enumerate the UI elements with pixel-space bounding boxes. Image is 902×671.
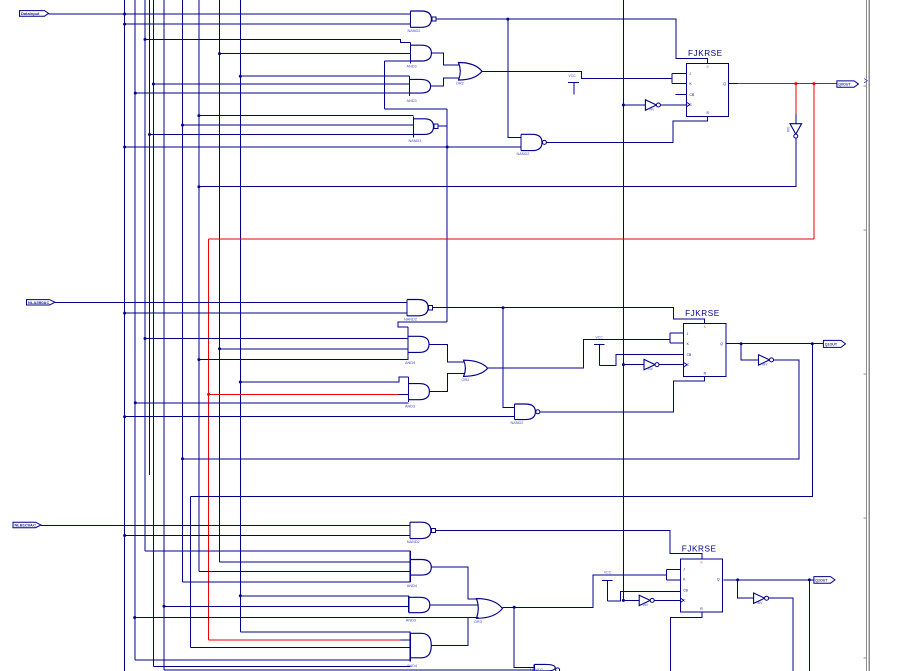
junction clock V y=600.4 bbox=[622, 599, 625, 602]
wire dropper x=514.2 to NAND C5 in1 bbox=[514, 607, 534, 667]
wire O2 output to FF U2 J/K bbox=[488, 340, 670, 369]
sheet border (double gray line, right edge) bbox=[864, 0, 870, 671]
wire U3 Q output bbox=[724, 579, 814, 581]
wire O1 output to FF U1 J/K bbox=[482, 71, 672, 78]
junction port wire x=124.6 bbox=[123, 13, 126, 16]
wire VCC row3 to U3 CB bbox=[607, 591, 680, 601]
wire navy into inverter N2 bbox=[795, 114, 797, 124]
svg-text:INV: INV bbox=[648, 367, 654, 371]
wire bus V9 x=198.9 bbox=[198, 0, 200, 572]
svg-text:Q1OUT: Q1OUT bbox=[825, 342, 838, 346]
svg-text:INV: INV bbox=[649, 108, 655, 112]
output port Q0 row1 bbox=[837, 81, 859, 87]
nand gate C5 row3 (NAND2, cut off) bbox=[530, 664, 555, 671]
wire branch y=39.4 from V3 step to 42.5 bbox=[145, 39, 410, 42]
off-sheet tick row1 bbox=[864, 79, 868, 83]
junction Q3 x=809.4 bbox=[808, 578, 811, 581]
or gate O2 row2 (OR2) bbox=[462, 360, 488, 382]
wire branch y=24.1 from V1 bbox=[125, 23, 411, 25]
svg-text:DataInput: DataInput bbox=[21, 11, 40, 16]
nand gate C1 row3 (NAND2) bbox=[407, 522, 431, 544]
junction V2 y=617.5 bbox=[133, 616, 136, 619]
junction V4 y=134.5 bbox=[148, 133, 151, 136]
wire U3 R path bbox=[671, 613, 702, 671]
wire branch y=631.8 from V12 bbox=[240, 631, 410, 633]
junction V11 y=53.6 bbox=[218, 52, 221, 55]
and gate A2 row1 (AND3) bbox=[407, 43, 432, 69]
wire C2 output to OR O3 in1 bbox=[431, 567, 477, 599]
svg-text:AND3: AND3 bbox=[405, 404, 415, 408]
wire B2 output to OR O2 in1 bbox=[429, 344, 465, 362]
svg-text:AND3: AND3 bbox=[406, 619, 416, 623]
svg-text:VCC: VCC bbox=[604, 571, 612, 575]
wire N5 out to U3 C pin bbox=[654, 599, 680, 601]
wire branch y=660.2 from V2a bbox=[135, 659, 410, 661]
wire bus V12 x=240.3 bbox=[239, 0, 241, 632]
junction V1 y=535.5 bbox=[123, 534, 126, 537]
wire bus V10 red x=208.6 bbox=[208, 239, 210, 640]
svg-text:FJKRSE: FJKRSE bbox=[688, 49, 723, 58]
wire C4 output to OR O3 in3 bbox=[431, 618, 478, 646]
wire branch y=313.1 from V1 bbox=[125, 312, 408, 314]
wire red horizontal y=239.2 bbox=[209, 238, 814, 240]
svg-text:AND3: AND3 bbox=[407, 65, 417, 69]
wire link vertical x=384.3 bbox=[383, 61, 385, 109]
junction V6 y=606.3 bbox=[163, 605, 166, 608]
wire branch y=53.6 from V11 bbox=[220, 53, 411, 55]
svg-text:VCC: VCC bbox=[596, 336, 604, 340]
wire U2 J/K tie bar bbox=[670, 333, 684, 343]
svg-text:NAND2: NAND2 bbox=[407, 540, 420, 544]
wire Q2 branch to inverter N4 bbox=[741, 344, 758, 360]
svg-text:NAND2: NAND2 bbox=[408, 29, 421, 33]
nand gate B5 row2 (NAND2) bbox=[511, 404, 536, 425]
svg-text:AND4: AND4 bbox=[405, 361, 415, 365]
junction mid vertical y=147 bbox=[446, 146, 449, 149]
wire A5 output to FF U1 R pin bbox=[547, 116, 708, 142]
wire A4 output to mid vertical bbox=[438, 125, 447, 127]
svg-text:INV: INV bbox=[787, 126, 791, 132]
and gate C2 row3 (AND4) bbox=[407, 551, 432, 588]
junction red y=394.4 bbox=[207, 393, 210, 396]
junction V1 y=24.1 bbox=[123, 23, 126, 26]
junction red x=813.9 bbox=[812, 82, 815, 85]
flip-flop U1 FJKRSE row1 bbox=[687, 49, 729, 117]
wire branch y=61.1 link bbox=[384, 60, 410, 62]
junction V9 y=359.6 bbox=[197, 358, 200, 361]
junction V3 y=338.5 bbox=[144, 337, 147, 340]
junction Q2 x=812.3 bbox=[811, 342, 814, 345]
wire dropper x=507.8 to NAND A5 in1 bbox=[508, 19, 521, 137]
svg-text:CB: CB bbox=[690, 93, 695, 97]
wire U1 Q output net red bbox=[738, 83, 837, 85]
wire Q3 branch to inverter N6 bbox=[738, 580, 754, 598]
wire A3 output to OR O1 in2 bbox=[431, 78, 460, 86]
svg-text:NAND2: NAND2 bbox=[511, 421, 524, 425]
inverter N3 row2 (clock) bbox=[644, 359, 659, 371]
wire clock vertical x=623.4 bbox=[622, 0, 624, 600]
wire bus V2 x=135.0 bbox=[134, 0, 136, 660]
and gate B3 row2 (AND3) bbox=[405, 377, 429, 408]
wire clock to inverter N3 row2 bbox=[623, 364, 644, 366]
flip-flop U2 FJKRSE row2 bbox=[684, 309, 726, 377]
wire branch y=125.1 from V7 bbox=[183, 124, 414, 126]
wire A1 output to FF U1 S pin bbox=[436, 19, 708, 63]
wire U3 J/K tie bar bbox=[667, 569, 681, 579]
svg-text:Q: Q bbox=[720, 342, 723, 346]
wire port row2 to NAND B1 in1 y=302.5 bbox=[55, 302, 407, 304]
inverter N2 row1 (feedback) bbox=[787, 124, 802, 138]
wire clock to inverter N5 row3 bbox=[623, 599, 639, 601]
svg-text:Q: Q bbox=[717, 578, 720, 582]
wire branch y=93.1 from V2 bbox=[135, 92, 409, 94]
svg-text:NLB1C0AC: NLB1C0AC bbox=[15, 523, 36, 528]
junction V11 y=348.8 bbox=[218, 347, 221, 350]
junction V1 y=313.1 bbox=[123, 312, 126, 315]
wire port row3 to NAND C1 in1 y=525.7 bbox=[41, 525, 410, 527]
svg-text:Q0OUT: Q0OUT bbox=[838, 83, 851, 87]
wire red-to-navy y=640 bbox=[400, 639, 410, 641]
wire Q3 drop going down bbox=[808, 580, 810, 671]
svg-text:NAND2: NAND2 bbox=[404, 317, 417, 321]
svg-text:INV: INV bbox=[757, 601, 763, 605]
wire B1 output to FF U2 S pin bbox=[433, 308, 704, 324]
wire U1 CB stub bbox=[675, 94, 686, 96]
wire branch y=382 from V12 step up bbox=[240, 377, 408, 382]
wire branch y=582.2 from V7 bbox=[183, 581, 411, 583]
wire clock to inverter N1 row1 bbox=[623, 104, 645, 106]
svg-text:OR3: OR3 bbox=[474, 620, 482, 624]
svg-text:OR2: OR2 bbox=[462, 378, 470, 382]
nand gate A1 row1 (NAND2) bbox=[408, 11, 432, 33]
wire branch y=348.8 from V11 bbox=[220, 348, 409, 350]
or gate O1 row1 (OR2) bbox=[456, 63, 482, 86]
inverter N1 row1 (clock) bbox=[645, 100, 660, 112]
flip-flop U3 FJKRSE row3 bbox=[680, 545, 722, 613]
junction A1 out x=507.8 bbox=[506, 18, 509, 21]
svg-text:FJKRSE: FJKRSE bbox=[682, 545, 717, 554]
wire branch y=134.5 from V4 bbox=[150, 134, 414, 136]
wire branch y=115.6 from V9 bbox=[199, 115, 414, 117]
nand gate A5 row1 (NAND2) bbox=[517, 134, 543, 156]
svg-text:INV: INV bbox=[762, 363, 768, 367]
wire branch y=551 from V3 bbox=[145, 550, 410, 552]
and gate C3 row3 (AND3) bbox=[406, 596, 430, 623]
junction V9 y=186.7 bbox=[197, 185, 200, 188]
wire A2 output to OR O1 in1 bbox=[431, 53, 459, 65]
junction clock V y=364.6 bbox=[622, 363, 625, 366]
wire C1 output to FF U3 S pin bbox=[436, 530, 702, 559]
wire red drop to inverter N2 bbox=[795, 84, 797, 114]
wire U1 J/K tie bar bbox=[672, 74, 687, 84]
wire port row1 to NAND A1 in1 y=14.0 bbox=[49, 13, 411, 15]
wire link row1-to-row2 step bbox=[398, 322, 447, 327]
svg-text:NAND3: NAND3 bbox=[409, 139, 422, 143]
junction V5 y=84.0 bbox=[152, 83, 155, 86]
svg-text:AND4: AND4 bbox=[407, 664, 417, 668]
wire red branch y=640 bbox=[209, 639, 401, 641]
wire red long drop x=813.9 bbox=[813, 84, 815, 240]
wire bus V4 x=149.5 bbox=[149, 0, 151, 475]
junction V2 y=93.1 bbox=[134, 92, 137, 95]
junction V1 y=147 bbox=[123, 146, 126, 149]
svg-text:NLA2B0AC: NLA2B0AC bbox=[28, 300, 49, 305]
wire N4 out feedback to V7 bbox=[183, 360, 799, 459]
wire B5 output to FF U2 R pin bbox=[540, 375, 704, 411]
wire branch y=76.2 from V12 bbox=[240, 75, 409, 77]
wire bus V6 x=164.0 bbox=[163, 0, 165, 670]
wire branch y=338.5 from V3 bbox=[145, 338, 408, 340]
svg-text:OR2: OR2 bbox=[456, 82, 464, 86]
svg-text:Q2OUT: Q2OUT bbox=[815, 578, 828, 582]
junction clock V y=105 bbox=[622, 104, 625, 107]
wire branch y=647.7 from V8 bbox=[191, 647, 411, 649]
inverter N6 row3 (feedback) bbox=[754, 593, 769, 605]
junction V9 y=115.6 bbox=[197, 114, 200, 117]
svg-text:AND3: AND3 bbox=[407, 99, 417, 103]
wire dropper x=503 to NAND B5 in1 bbox=[503, 308, 514, 408]
input port DataInput row1 bbox=[20, 11, 49, 17]
wire bus V11 x=219.5 bbox=[219, 0, 221, 562]
junction V12 y=595.8 bbox=[239, 594, 242, 597]
wire N1 out to U1 C pin bbox=[660, 104, 686, 106]
svg-text:FJKRSE: FJKRSE bbox=[685, 309, 720, 318]
wire branch y=561.8 from V11 bbox=[220, 561, 411, 563]
wire branch y=670.2 from V6 to NAND C5 bbox=[164, 669, 534, 671]
wire branch y=617.5 from V2 to OR in3 tee bbox=[135, 617, 468, 619]
wire link y=108.8 bbox=[384, 108, 447, 110]
vcc symbol row2 bbox=[594, 336, 605, 366]
wire red-to-navy y=394.4 bbox=[398, 393, 408, 395]
output port Q2 row3 bbox=[814, 577, 835, 584]
or gate O3 row3 (OR3) bbox=[474, 599, 503, 624]
wire C5 output stub bbox=[559, 669, 561, 671]
nand gate B1 row2 (NAND2) bbox=[404, 300, 428, 322]
and gate C4 row3 (AND4) bbox=[407, 633, 432, 668]
wire bus V3 x=145.0 bbox=[144, 0, 146, 551]
wire branch y=666.6 from V5 bbox=[153, 666, 410, 668]
wire B3 output to OR O2 in2 bbox=[429, 374, 464, 392]
svg-text:NAND2: NAND2 bbox=[517, 152, 530, 156]
wire branch y=595.8 from V12 bbox=[240, 595, 408, 597]
junction Q2 x=741.1 bbox=[740, 342, 743, 345]
wire branch y=606.3 from V6 bbox=[164, 605, 409, 607]
output port Q1 row2 bbox=[823, 340, 845, 347]
wire bus V5 x=153.4 bbox=[152, 0, 154, 667]
wire bus V7 x=182.5 bbox=[182, 0, 184, 582]
wire branch y=84.0 from V5 bbox=[153, 83, 409, 85]
wire branch y=359.6 from V9 bbox=[199, 359, 408, 361]
wire N2 out feedback to V9 bbox=[199, 138, 796, 187]
wire branch y=147 from V1 to NAND A5 bbox=[125, 146, 521, 148]
svg-text:CB: CB bbox=[687, 353, 692, 357]
wire U1 Q output (navy part) bbox=[729, 83, 738, 85]
junction Q3 x=737.7 bbox=[736, 578, 739, 581]
svg-text:Q: Q bbox=[723, 82, 726, 86]
wire branch y=571.5 from V9 bbox=[199, 571, 410, 573]
wire VCC row2 to U2 CB bbox=[599, 355, 683, 366]
wire mid vertical x=447.2 bbox=[446, 109, 448, 322]
wire red branch y=394.4 bbox=[209, 393, 399, 395]
wire branch y=535.5 from V1 bbox=[125, 535, 410, 537]
wire N3 out to U2 C pin bbox=[659, 364, 684, 366]
vcc symbol row1 bbox=[568, 74, 579, 94]
junction V7 y=125.1 bbox=[181, 124, 184, 127]
junction V1 y=416.7 bbox=[123, 415, 126, 418]
junction V7 y=458.8 bbox=[181, 457, 184, 460]
junction O3 out x=514.2 bbox=[513, 606, 516, 609]
wire Q2 drop feedback to V8 bbox=[191, 344, 813, 497]
wire N6 out going down bbox=[769, 598, 793, 671]
input port row2 bbox=[27, 300, 56, 305]
wire bus V1 x=124.6 bbox=[124, 0, 126, 671]
wire C3 output to OR O3 in2 bbox=[430, 604, 478, 606]
junction B1 out x=503 bbox=[502, 306, 505, 309]
junction V12 y=382 bbox=[239, 381, 242, 384]
svg-text:CB: CB bbox=[683, 589, 688, 593]
and gate A3 row1 (AND3) bbox=[407, 76, 431, 103]
wire branch y=416.7 from V1 to NAND B5 bbox=[125, 416, 515, 418]
junction red x=795.8 bbox=[794, 82, 797, 85]
input port row3 bbox=[13, 522, 41, 528]
svg-text:INV: INV bbox=[643, 603, 649, 607]
inverter N5 row3 (clock) bbox=[639, 595, 654, 607]
wire U2 Q output bbox=[726, 343, 824, 345]
vcc symbol row3 bbox=[602, 571, 613, 602]
wire bus V8 x=190.6 bbox=[190, 496, 192, 647]
svg-text:VCC: VCC bbox=[569, 74, 577, 78]
junction V3 y=39.4 bbox=[144, 38, 147, 41]
wire O3 output to FF U3 J/K bbox=[503, 575, 667, 607]
junction V2 y=402.8 bbox=[134, 401, 137, 404]
junction V12 y=76.2 bbox=[239, 75, 242, 78]
wire branch y=402.8 from V2 bbox=[135, 402, 408, 404]
svg-text:AND4: AND4 bbox=[407, 584, 417, 588]
and gate B2 row2 (AND4) bbox=[405, 327, 429, 365]
inverter N4 row2 (feedback) bbox=[759, 355, 774, 367]
nand gate A4 row1 (NAND3) bbox=[409, 117, 434, 143]
